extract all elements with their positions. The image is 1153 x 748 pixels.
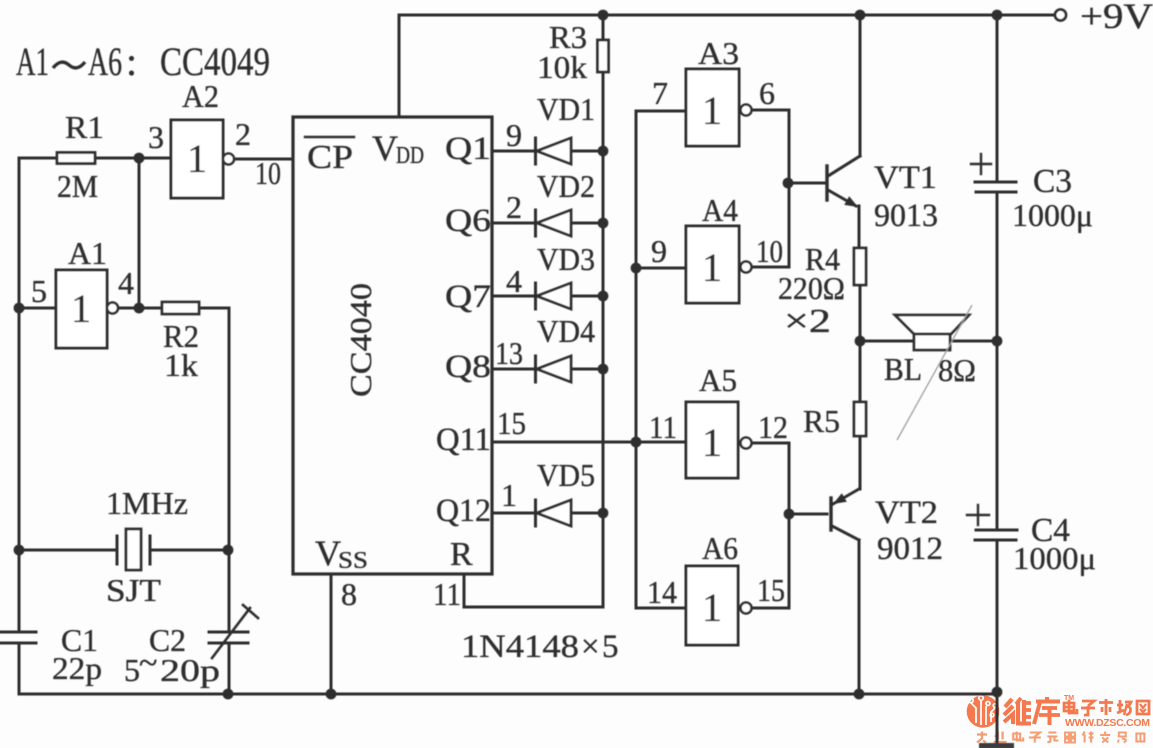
svg-text:10: 10	[255, 155, 281, 191]
svg-text:4: 4	[118, 265, 134, 301]
svg-text:7: 7	[652, 75, 668, 111]
svg-text:DD: DD	[396, 143, 424, 169]
svg-text:CC4040: CC4040	[343, 283, 378, 397]
svg-text:VD3: VD3	[537, 241, 595, 277]
svg-text:15: 15	[757, 572, 785, 608]
svg-text:1: 1	[702, 245, 722, 290]
svg-text:VD5: VD5	[537, 457, 595, 493]
svg-text:1: 1	[187, 136, 207, 181]
svg-text:1: 1	[71, 286, 91, 331]
svg-text:1000μ: 1000μ	[1013, 540, 1096, 576]
svg-text:CP: CP	[307, 139, 353, 176]
svg-text:3: 3	[148, 119, 164, 155]
svg-text:1000μ: 1000μ	[1012, 197, 1093, 233]
svg-text:+9V: +9V	[1080, 0, 1153, 36]
svg-text:Q11: Q11	[436, 422, 491, 458]
svg-text:13: 13	[495, 335, 523, 371]
svg-text:Q7: Q7	[445, 279, 491, 315]
svg-text:220Ω: 220Ω	[778, 270, 845, 306]
svg-text:VT2: VT2	[875, 495, 938, 531]
svg-text:2M: 2M	[57, 168, 98, 204]
svg-text:A1: A1	[68, 235, 107, 271]
svg-text::: :	[126, 39, 137, 84]
svg-text:1: 1	[702, 585, 722, 630]
svg-text:10: 10	[756, 233, 783, 269]
svg-text:9013: 9013	[874, 198, 938, 234]
svg-text:×2: ×2	[784, 303, 831, 340]
svg-text:A3: A3	[698, 35, 739, 71]
svg-text:9012: 9012	[877, 531, 943, 567]
svg-text:R1: R1	[65, 109, 104, 145]
svg-text:C3: C3	[1033, 163, 1072, 200]
svg-text:5: 5	[602, 629, 619, 665]
svg-text:A2: A2	[182, 78, 219, 114]
svg-text:~: ~	[139, 645, 157, 682]
svg-text:SS: SS	[338, 548, 368, 574]
svg-text:VT1: VT1	[874, 160, 937, 196]
svg-text:14: 14	[647, 574, 677, 610]
svg-text:V: V	[372, 128, 398, 168]
svg-text:12: 12	[758, 409, 788, 445]
svg-text:10k: 10k	[537, 49, 587, 85]
svg-text:1k: 1k	[164, 347, 198, 383]
svg-text:VD2: VD2	[537, 168, 595, 204]
svg-text:20p: 20p	[160, 652, 220, 688]
svg-text:WWW.DZSC.COM: WWW.DZSC.COM	[1065, 717, 1150, 729]
svg-text:Q1: Q1	[445, 131, 491, 167]
svg-text:BL: BL	[884, 351, 922, 387]
svg-text:×: ×	[581, 629, 600, 665]
svg-text:1N4148: 1N4148	[461, 629, 579, 665]
svg-text:TM: TM	[1064, 695, 1074, 702]
svg-text:1: 1	[702, 88, 722, 133]
svg-text:R: R	[450, 536, 473, 573]
svg-text:VD4: VD4	[537, 313, 595, 349]
svg-text:8Ω: 8Ω	[938, 352, 976, 388]
svg-text:9: 9	[651, 233, 667, 269]
svg-text:22p: 22p	[52, 650, 102, 686]
svg-text:5: 5	[124, 652, 140, 688]
svg-text:11: 11	[433, 576, 461, 612]
svg-text:4: 4	[506, 263, 522, 299]
svg-text:2: 2	[506, 189, 522, 225]
svg-text:5: 5	[31, 273, 47, 309]
svg-text:VD1: VD1	[537, 91, 595, 127]
svg-text:1: 1	[501, 477, 517, 513]
svg-text:6: 6	[759, 75, 775, 111]
svg-text:9: 9	[506, 117, 522, 153]
svg-text:R5: R5	[803, 403, 840, 439]
svg-text:15: 15	[497, 405, 526, 441]
svg-text:1: 1	[702, 420, 722, 465]
svg-text:2: 2	[235, 116, 251, 152]
svg-text:A4: A4	[702, 192, 738, 228]
svg-text:A5: A5	[699, 362, 737, 398]
svg-text:Q8: Q8	[445, 349, 491, 385]
svg-text:A6: A6	[88, 39, 122, 84]
svg-text:11: 11	[649, 409, 677, 445]
svg-text:8: 8	[341, 576, 357, 612]
svg-text:1MHz: 1MHz	[106, 485, 188, 521]
svg-text:Q6: Q6	[445, 203, 491, 239]
svg-text:SJT: SJT	[106, 572, 162, 608]
svg-text:A1: A1	[16, 39, 49, 84]
svg-text:Q12: Q12	[436, 493, 491, 529]
svg-text:A6: A6	[702, 530, 738, 566]
